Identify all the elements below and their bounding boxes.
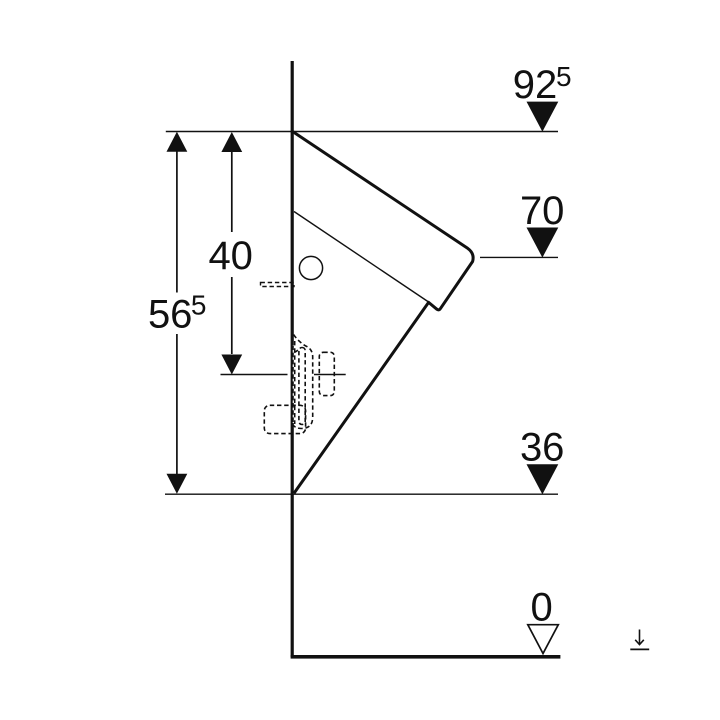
floor line (level 0) xyxy=(291,655,561,659)
dimension 56.5 vertical line lower xyxy=(176,334,178,474)
svg-text:36: 36 xyxy=(520,426,565,470)
urinal inner rim line xyxy=(294,212,429,303)
wall line xyxy=(291,61,294,657)
level line 70 xyxy=(480,256,558,258)
floor reference icon base line xyxy=(630,648,649,650)
svg-text:5: 5 xyxy=(556,61,572,92)
level marker 36 filled triangle xyxy=(527,464,559,494)
spud hole circle xyxy=(299,256,322,279)
dimension 56.5 top arrow xyxy=(167,132,188,152)
level line 36 xyxy=(165,493,558,495)
dimension 40 vertical line lower xyxy=(231,277,233,354)
dimension 40 top arrow xyxy=(221,132,242,152)
dashed right connector box xyxy=(319,352,334,395)
dashed bottom-left box xyxy=(264,405,305,433)
svg-text:0: 0 xyxy=(530,585,552,629)
dashed trap wall nicks (white) xyxy=(293,345,295,423)
outlet tick line right (40 level) xyxy=(314,374,346,376)
dimension 56.5 vertical line upper xyxy=(176,151,178,293)
outlet tick line left (40 level) xyxy=(221,374,288,376)
floor reference icon arrow head xyxy=(635,640,644,645)
svg-text:5: 5 xyxy=(191,290,207,321)
urinal outline xyxy=(293,132,473,494)
svg-text:40: 40 xyxy=(208,234,253,278)
dimension 56.5 bottom arrow xyxy=(167,474,188,494)
dashed water supply stub xyxy=(261,283,295,287)
dimension 40 vertical line upper xyxy=(231,152,233,232)
floor reference icon arrow shaft xyxy=(639,630,641,645)
dashed inner tube top curve xyxy=(294,349,299,353)
dashed trap outer body xyxy=(293,335,313,429)
level marker 0 open triangle xyxy=(528,625,559,654)
svg-text:92: 92 xyxy=(513,63,558,107)
svg-text:70: 70 xyxy=(520,189,565,233)
level line 92.5 xyxy=(166,131,558,133)
dashed inner tube xyxy=(299,348,305,425)
dimension 40 bottom arrow xyxy=(221,355,242,375)
level marker 92.5 filled triangle xyxy=(527,102,559,132)
level marker 70 filled triangle xyxy=(527,228,559,258)
dashed trap left edge xyxy=(294,341,296,424)
svg-text:56: 56 xyxy=(148,293,193,337)
